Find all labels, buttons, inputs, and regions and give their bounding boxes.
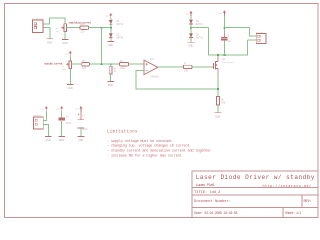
title block <box>192 171 318 217</box>
junction J3 <box>110 63 112 65</box>
svg-text:standby current: standby current <box>44 62 63 66</box>
wire C6 to ground <box>61 121 63 136</box>
svg-text:BAT41: BAT41 <box>117 23 125 26</box>
svg-text:100k: 100k <box>120 67 126 70</box>
wire drain rail <box>209 28 248 55</box>
diode D2 BAT41 <box>109 33 124 39</box>
ground GND5 <box>67 85 74 90</box>
op-amp IC1 <box>144 58 159 79</box>
wire vcc to pot2 <box>69 56 71 61</box>
svg-text:100n: 100n <box>66 122 72 125</box>
wire pot1 wiper to R10 <box>67 27 80 29</box>
svg-text:GND: GND <box>188 44 193 48</box>
svg-text:REV:: REV: <box>304 200 312 204</box>
svg-text:GND: GND <box>46 138 51 142</box>
power VCC arrow A4 standby <box>65 51 72 57</box>
svg-text:Date: 03.04.2009 10:43:58: Date: 03.04.2009 10:43:58 <box>194 211 237 215</box>
resistor R13 100 <box>183 63 192 73</box>
svg-text:GND: GND <box>108 43 113 47</box>
svg-text:10k: 10k <box>62 68 67 71</box>
wire node down to standby rail <box>101 28 103 64</box>
svg-text:1R0: 1R0 <box>221 101 226 104</box>
transistor Q1 IRLML2803 <box>213 55 234 74</box>
ground GND4 <box>188 42 195 47</box>
svg-text:10u: 10u <box>227 40 232 43</box>
wire R8 to ground <box>217 105 219 113</box>
ground GND3 <box>107 41 114 46</box>
svg-text:GND: GND <box>59 138 64 142</box>
connector X3 supply <box>33 114 43 129</box>
wire op-amp output to R13 <box>158 66 184 68</box>
svg-text:AD8605: AD8605 <box>151 76 160 79</box>
wire diode stack 1 vertical <box>110 18 112 41</box>
junction J5 <box>217 54 219 56</box>
wire pot2 wiper to R11 <box>72 63 82 65</box>
junction J9 <box>190 27 192 29</box>
wire source down to sense node <box>217 74 219 97</box>
svg-text:Limitations: Limitations <box>107 130 138 135</box>
wire X1 pin2 to ground <box>43 28 50 39</box>
power VCC arrow A7 <box>75 106 82 112</box>
wire R12 to op-amp plus input <box>129 63 144 65</box>
svg-text:GND: GND <box>215 114 220 118</box>
svg-text:X2 LD: X2 LD <box>256 31 263 34</box>
diode D4 BAT41 <box>189 33 203 39</box>
svg-text:100u: 100u <box>82 128 88 131</box>
svg-text:- increase R8 for a higher max: - increase R8 for a higher max current <box>107 153 182 158</box>
junction J6 <box>224 54 226 56</box>
wire R9 to ground <box>110 74 112 81</box>
power VCC arrow A1 <box>105 13 112 18</box>
svg-text:Sheet: 1/1: Sheet: 1/1 <box>285 211 301 215</box>
potentiometer R1 modulation <box>56 24 67 33</box>
svg-text:GND: GND <box>47 40 52 44</box>
wire pot1 bottom to ground <box>64 32 66 40</box>
wire vcc node to X2 <box>224 27 249 29</box>
ground GND1 <box>47 39 53 45</box>
title block text <box>194 174 315 215</box>
wire C7 to ground <box>80 128 82 136</box>
svg-text:GND: GND <box>68 86 73 90</box>
svg-text:SUPPLY: SUPPLY <box>33 114 42 117</box>
svg-text:GND: GND <box>78 138 83 142</box>
power VCC arrow A5 <box>41 106 48 112</box>
resistor R8 sense <box>216 96 225 105</box>
svg-text:X1 MOLEX2: X1 MOLEX2 <box>32 17 45 20</box>
junction J4 <box>217 88 219 90</box>
svg-text:- standby current and modulati: - standby current and modulation current… <box>107 149 211 154</box>
svg-text:R10: R10 <box>80 23 85 26</box>
diode D1 BAT41 <box>109 20 124 26</box>
capacitor C5 10u <box>221 34 231 44</box>
wire X2 pin1 <box>249 28 256 37</box>
wire J3 to R9 <box>110 64 112 66</box>
svg-text:GND: GND <box>108 83 113 87</box>
wire X3 pin1 to VCC <box>43 112 46 121</box>
junction J2 <box>101 63 103 65</box>
wire feedback minus input <box>136 71 218 89</box>
svg-text:BAT41: BAT41 <box>196 23 204 26</box>
capacitor C7 100u polarized <box>78 112 89 131</box>
ground GND7 <box>215 113 222 119</box>
svg-text:GND: GND <box>62 41 67 45</box>
ground GND9 <box>58 136 65 141</box>
svg-text:- supply voltage must be const: - supply voltage must be constant <box>107 139 172 144</box>
connector X1 <box>32 17 45 32</box>
svg-text:Laser Diode Driver w/ standby: Laser Diode Driver w/ standby <box>196 174 315 181</box>
svg-text:http://interaxo.de/: http://interaxo.de/ <box>263 184 312 189</box>
diode D3 BAT41 <box>189 20 203 26</box>
wire pot2 bottom to ground <box>69 69 71 85</box>
wire R10 to diode node <box>89 27 111 29</box>
svg-text:Lucas Pleß: Lucas Pleß <box>196 183 216 188</box>
resistor R11 220 <box>82 60 90 70</box>
power VCC arrow A3 <box>219 10 226 15</box>
wire vcc to C6 <box>61 112 63 118</box>
svg-text:220: 220 <box>82 67 87 70</box>
svg-text:TITLE: ldd_2: TITLE: ldd_2 <box>194 190 221 195</box>
junction J1 <box>101 27 103 29</box>
resistor R9 1k <box>109 66 117 74</box>
resistor R12 100k <box>120 60 129 70</box>
ground GND8 <box>45 136 52 141</box>
wire vcc to C5 <box>223 16 225 37</box>
svg-text:100: 100 <box>184 70 189 73</box>
junction J8 <box>110 27 112 29</box>
svg-text:BAT41: BAT41 <box>196 37 204 40</box>
ground GND10 <box>78 137 85 142</box>
svg-text:IRLML2803: IRLML2803 <box>222 61 234 64</box>
resistor R10 220 <box>80 23 89 33</box>
note limitations text <box>107 130 211 159</box>
wire diode stack 2 vertical <box>190 16 192 42</box>
wire R11 to R12 <box>90 63 120 65</box>
junction J7 <box>224 27 226 29</box>
svg-text:BAT41: BAT41 <box>117 37 125 40</box>
wire diode node to drain rail <box>191 27 209 29</box>
svg-text:Document Number:: Document Number: <box>194 199 231 204</box>
ground GND2 <box>62 40 68 46</box>
wire X1 pin1 to top rail <box>43 18 65 24</box>
svg-text:- changing sup. voltage change: - changing sup. voltage changes LD curre… <box>107 144 189 149</box>
svg-text:IC1: IC1 <box>150 58 155 61</box>
wire X3 pin2 to ground <box>43 124 48 136</box>
potentiometer R2 standby <box>62 61 72 71</box>
svg-text:220: 220 <box>80 30 85 33</box>
ground GND6 <box>107 82 114 87</box>
power VCC arrow A2 <box>185 11 192 16</box>
wire R13 to gate <box>192 66 213 68</box>
power VCC arrow A6 <box>56 106 63 112</box>
capacitor C6 100n <box>59 116 72 125</box>
wire X2 pin2 <box>248 39 257 41</box>
wire C5 bottom to rail <box>223 40 225 55</box>
connector X2 laser diode <box>256 31 266 44</box>
